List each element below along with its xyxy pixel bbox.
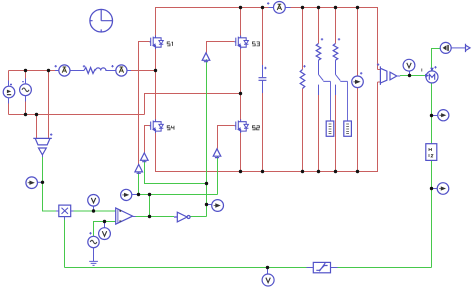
wire: V probe V3 lead: [409, 71, 411, 75]
junction dots red net: [24, 6, 359, 173]
wire: RL glyph to A2: [106, 70, 116, 72]
load inductor L2: [333, 38, 340, 74]
wire: multiplier output to op-amp: [73, 210, 116, 212]
wire: controller1 output to G1 net: [138, 172, 140, 195]
output terminal icon: [466, 44, 471, 52]
inline voltage sensor circle: [352, 72, 364, 87]
wire: source bottom bus: [9, 114, 145, 116]
on-off controller for S4: [141, 153, 149, 162]
wire: resistor leg upper: [302, 8, 304, 70]
switch in L2 leg: [336, 75, 348, 122]
wire: P probe P5 lead: [432, 188, 438, 190]
V probe V3: [403, 59, 415, 71]
voltage sensor (input): [33, 133, 52, 154]
switch in L1 leg: [319, 75, 331, 122]
gating block for L2 switch: [344, 121, 352, 136]
mosfet S4: [150, 119, 164, 133]
label S1: [167, 42, 172, 46]
wire: blue lead stubs near sources and ammeter A3: [9, 8, 291, 104]
wire: S1-S4 leg midpoint riser: [155, 49, 157, 120]
label S2: [252, 126, 259, 130]
op-amp (PI regulator): [116, 208, 133, 224]
wire: G1 gate signal run: [132, 194, 218, 196]
on-off controller for S1: [135, 164, 143, 173]
wire: G1 riser from op-amp output: [149, 195, 151, 217]
wire: S3-S2 leg midpoint riser: [240, 49, 242, 120]
V probe V1: [88, 195, 100, 207]
mosfet S2: [235, 119, 249, 133]
wire: S4 gate: [145, 126, 150, 153]
wire: controller2 lead down to G1 net: [217, 156, 219, 194]
transfer function block: [426, 144, 437, 161]
DC voltage source V: [3, 84, 15, 98]
wire: V probe V2 lead: [104, 222, 106, 228]
wire: V probe V4 lead: [267, 268, 269, 275]
gating block for L1 switch: [326, 121, 334, 136]
junction dots green net: [41, 74, 433, 269]
ground: [89, 261, 98, 265]
wire: V-sensor leg upper: [357, 8, 359, 77]
probe P1: [26, 177, 43, 189]
wire: sensor1 output down to multiplier: [43, 155, 57, 211]
wire: resistor leg lower: [302, 89, 304, 172]
wire: right feedback riser: [431, 83, 433, 268]
ammeter A1: [55, 65, 71, 76]
wire: S1 gate: [139, 42, 150, 165]
mosfet S1: [150, 36, 164, 50]
label S3: [252, 42, 259, 46]
voltage sensor output wire stub: [43, 155, 136, 217]
wire: S3 drain riser: [240, 8, 242, 36]
inverter (NOT gate): [174, 212, 190, 222]
ammeter A3 (dc link): [267, 2, 285, 14]
wire: S2 gate: [218, 126, 235, 149]
ammeter A2: [111, 65, 127, 76]
wire: A1 to RL glyph: [70, 70, 84, 72]
wire: capacitor leg upper: [262, 8, 264, 66]
wire: P probe P4 lead: [432, 115, 438, 117]
wire: V probe V1 lead: [93, 206, 95, 211]
V probe V2: [99, 228, 111, 240]
wire: M block top lead to summer: [432, 49, 441, 71]
wire: capacitor leg lower: [262, 93, 264, 172]
wire: V source bottom lead: [8, 98, 10, 115]
dc link capacitor: [259, 65, 267, 93]
on-off controller for S2: [213, 149, 221, 158]
wire: sensor1 left input leg: [36, 115, 38, 139]
load inductor L1: [316, 38, 323, 74]
wire: bottom DC bus: [156, 82, 378, 172]
multiplier block: [56, 205, 74, 219]
wire: L2 leg lower: [335, 95, 337, 172]
wire: S3 gate: [207, 42, 235, 53]
wire: top DC bus: [156, 8, 378, 70]
wire: op-amp output to inverter: [135, 216, 174, 218]
summer +1 circle: [440, 42, 451, 53]
probe P3: [207, 200, 224, 212]
mosfet S3: [235, 36, 249, 50]
wire: A2 to bridge left midpoint: [127, 70, 155, 72]
clock symbol: [90, 9, 113, 32]
voltage sensor (output side): [377, 63, 400, 85]
load resistor R: [300, 65, 305, 88]
wire: AC2 bottom to ground: [93, 248, 95, 261]
wire: V source top lead: [8, 71, 10, 87]
probe P2: [121, 189, 139, 200]
wire: V-sensor leg lower: [357, 88, 359, 172]
wire: inverter output to G2 riser: [190, 216, 206, 218]
wire: summer output lead: [451, 47, 465, 49]
wire: op-amp inverting input: [94, 222, 116, 237]
series RL input branch: [83, 65, 106, 73]
P probe P5: [437, 183, 449, 195]
M multiplier circle: [422, 66, 438, 83]
wire: long bottom feedback run: [65, 267, 432, 269]
P probe P4: [438, 110, 449, 121]
wire: controller4 output to G2 net: [145, 160, 207, 183]
wire: L2 leg upper: [335, 8, 337, 44]
wire: multiplier lower input drop: [64, 220, 66, 268]
limiter block: [307, 262, 338, 272]
wire: S2 source riser: [240, 131, 242, 172]
wire: AC source bottom lead: [25, 96, 27, 115]
AC voltage source Vin: [20, 82, 32, 96]
wire: controller3 lead down to inverter output: [206, 59, 208, 216]
V probe V4: [262, 274, 274, 286]
wire: sensor2 output to M block: [400, 75, 426, 77]
wire: return from right midpoint: [145, 94, 241, 115]
wire: AC source top lead: [25, 71, 27, 85]
wire: source top bus to A1: [9, 70, 59, 72]
label S4: [167, 126, 174, 130]
AC reference source: [88, 232, 99, 248]
wire: sensor1 right input leg: [48, 71, 50, 139]
on-off controller for S3: [202, 53, 210, 62]
wire: L1 leg lower: [318, 95, 320, 172]
wire: L1 leg upper: [318, 8, 320, 44]
